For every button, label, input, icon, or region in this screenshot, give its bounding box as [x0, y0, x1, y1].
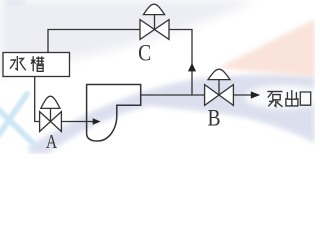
- watermark: lavender swoosh ribbon: [28, 74, 315, 154]
- valve C stem: [154, 14, 156, 29]
- valve B actuator dome: [208, 69, 230, 79]
- valve C actuator dome: [143, 4, 164, 14]
- valve B stem: [218, 80, 220, 95]
- text 水槽 (water tank): [10, 56, 44, 71]
- wire: valve A to pump suction: [62, 121, 94, 123]
- valve C body: [140, 20, 169, 40]
- svg-text:C: C: [138, 40, 151, 66]
- arrow to pump outlet: [251, 91, 260, 98]
- 水: [15, 56, 17, 70]
- watermark: white pocket over outlet text: [244, 85, 320, 109]
- valve B body: [205, 85, 234, 106]
- 口: [300, 92, 310, 105]
- 槽: [32, 56, 34, 71]
- wire: tank top to valve C: [48, 30, 140, 54]
- arrow up on branch: [188, 63, 196, 71]
- arrow into pump: [93, 118, 101, 124]
- watermark: pink wedge top-right: [218, 19, 315, 77]
- wire: pump discharge line to outlet arrow: [141, 94, 251, 96]
- wire: tank bottom to valve A: [35, 77, 40, 122]
- watermark: faint corner smudge: [4, 0, 26, 7]
- valve A stem: [50, 108, 52, 121]
- pump P1: [87, 85, 141, 142]
- 泵: [267, 91, 282, 93]
- valve A body: [40, 112, 62, 132]
- svg-text:A: A: [46, 130, 57, 153]
- valve A actuator dome: [41, 96, 60, 108]
- text 泵出口 (pump outlet): [267, 90, 310, 107]
- tank: [3, 53, 70, 77]
- svg-text:B: B: [208, 105, 221, 131]
- 出: [291, 90, 293, 106]
- wire: valve C to branch corner, down to discharge line: [169, 30, 192, 95]
- watermark: top-left gray wash: [0, 0, 256, 78]
- background base: [0, 0, 315, 154]
- watermark: blue X bottom-left: [0, 94, 34, 144]
